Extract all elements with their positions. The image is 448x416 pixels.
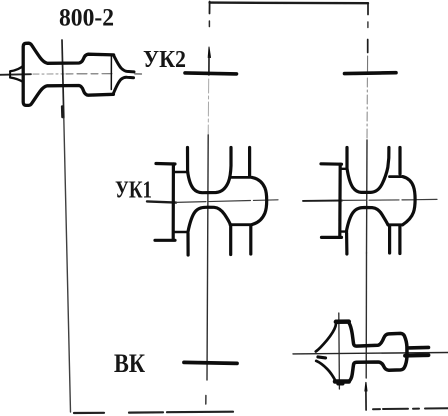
horizontal centerline of УК1 pass [147,201,176,202]
УК1 pass: head top shelf and leg [231,176,252,179]
ВК profile (horizontal rail, foot left / head right) [316,322,337,351]
right pass: head side bulge [403,177,416,225]
finished rail profile 800-2 (horizontal, foot left / head right) [23,43,113,105]
right pass: bottom legs [345,233,348,254]
УК1 pass: lower roll contour (arch) [188,207,230,232]
right pass: lower roll contour (arch) [346,208,388,232]
ВК profile foot bottom corner blob [338,382,343,385]
pass mark ВК (flat pass line) [184,362,237,363]
finished profile foot flange spikes [10,66,23,72]
right pass: left vertical roll edge (bracket) [321,162,342,166]
right pass: upper roll contour (web side U) [347,148,389,193]
УК1 pass: bottom legs [186,233,189,255]
ВК profile horizontal centerline [293,353,448,354]
УК1 pass: upper roll contour (web side U) [188,148,232,193]
УК1 pass: head side bulge [252,177,267,224]
ВК profile right fin dashes [409,346,429,350]
right pass: horizontal centerline [303,200,342,202]
middle column centerline (dash-dot, with arrow) [209,2,211,14]
finished profile head end thin face [110,56,112,90]
svg-text:УК1: УК1 [115,178,152,204]
finished profile right wedge (roll fin) [114,55,134,72]
svg-text:800-2: 800-2 [59,5,114,32]
wire: vertical centerline of finished profile (extends to bottom frame) [62,40,64,118]
ВК profile vertical centerline (through foot) [338,313,341,389]
svg-text:УК2: УК2 [143,47,186,73]
pass mark УК2 (flat pass line) [185,73,237,74]
right pass: head top shelf and leg [390,175,403,178]
pass mark right column top [345,71,397,76]
ВК profile bottom spike thick tip [318,357,326,358]
frame top line [210,1,368,4]
bottom frame dashed line [74,412,104,414]
svg-text:ВК: ВК [114,349,145,378]
right column centerline (dash-dot) [367,3,369,15]
wire: horizontal centerline of finished profile [0,73,31,76]
УК1 pass: left vertical roll edge (bracket) [156,162,175,166]
